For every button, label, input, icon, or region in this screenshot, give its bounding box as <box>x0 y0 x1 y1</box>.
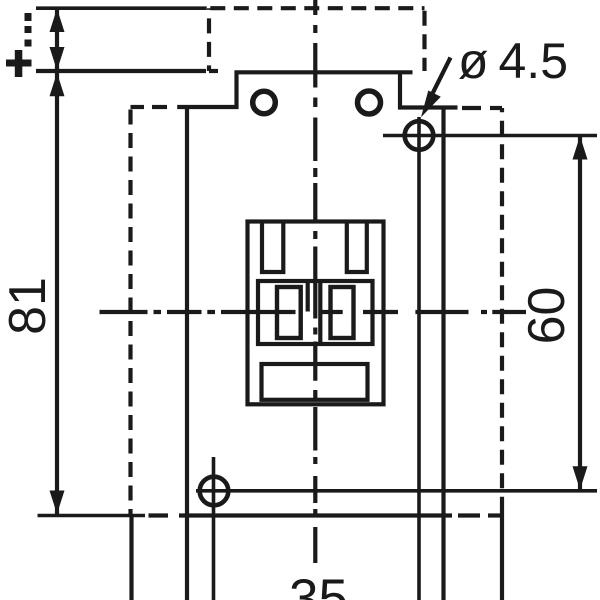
hidden panel cut-out (large dashed rectangle) <box>131 107 503 600</box>
flange / body solid outline with top tab <box>177 72 457 600</box>
tab circle left <box>253 91 276 114</box>
svg-text:4.5: 4.5 <box>499 33 569 89</box>
top slot left <box>262 222 283 273</box>
mounting hole bottom <box>196 457 597 600</box>
dimension 60 <box>518 136 588 490</box>
mounting hole top (ø4.5) <box>383 117 597 600</box>
contact window right <box>331 287 354 338</box>
dimension 81 <box>0 73 145 516</box>
leader ø 4.5 <box>421 33 568 117</box>
svg-text:81: 81 <box>0 277 57 335</box>
lower window <box>262 364 368 400</box>
contact window left <box>277 287 301 338</box>
divider wall left <box>306 281 310 312</box>
tab circle right <box>358 91 381 114</box>
terminal block outer body <box>248 222 384 405</box>
svg-text:35: 35 <box>289 569 348 600</box>
svg-text:ø: ø <box>458 33 489 89</box>
dimension + (tolerance) <box>6 8 207 77</box>
divider wall right <box>318 281 322 344</box>
svg-text:60: 60 <box>518 287 576 345</box>
vertical centerline <box>313 0 317 563</box>
middle frame <box>258 281 373 344</box>
horizontal centerline <box>100 310 527 314</box>
top slot right <box>347 222 367 273</box>
hidden rear housing (top dashed rectangle) <box>209 8 425 71</box>
